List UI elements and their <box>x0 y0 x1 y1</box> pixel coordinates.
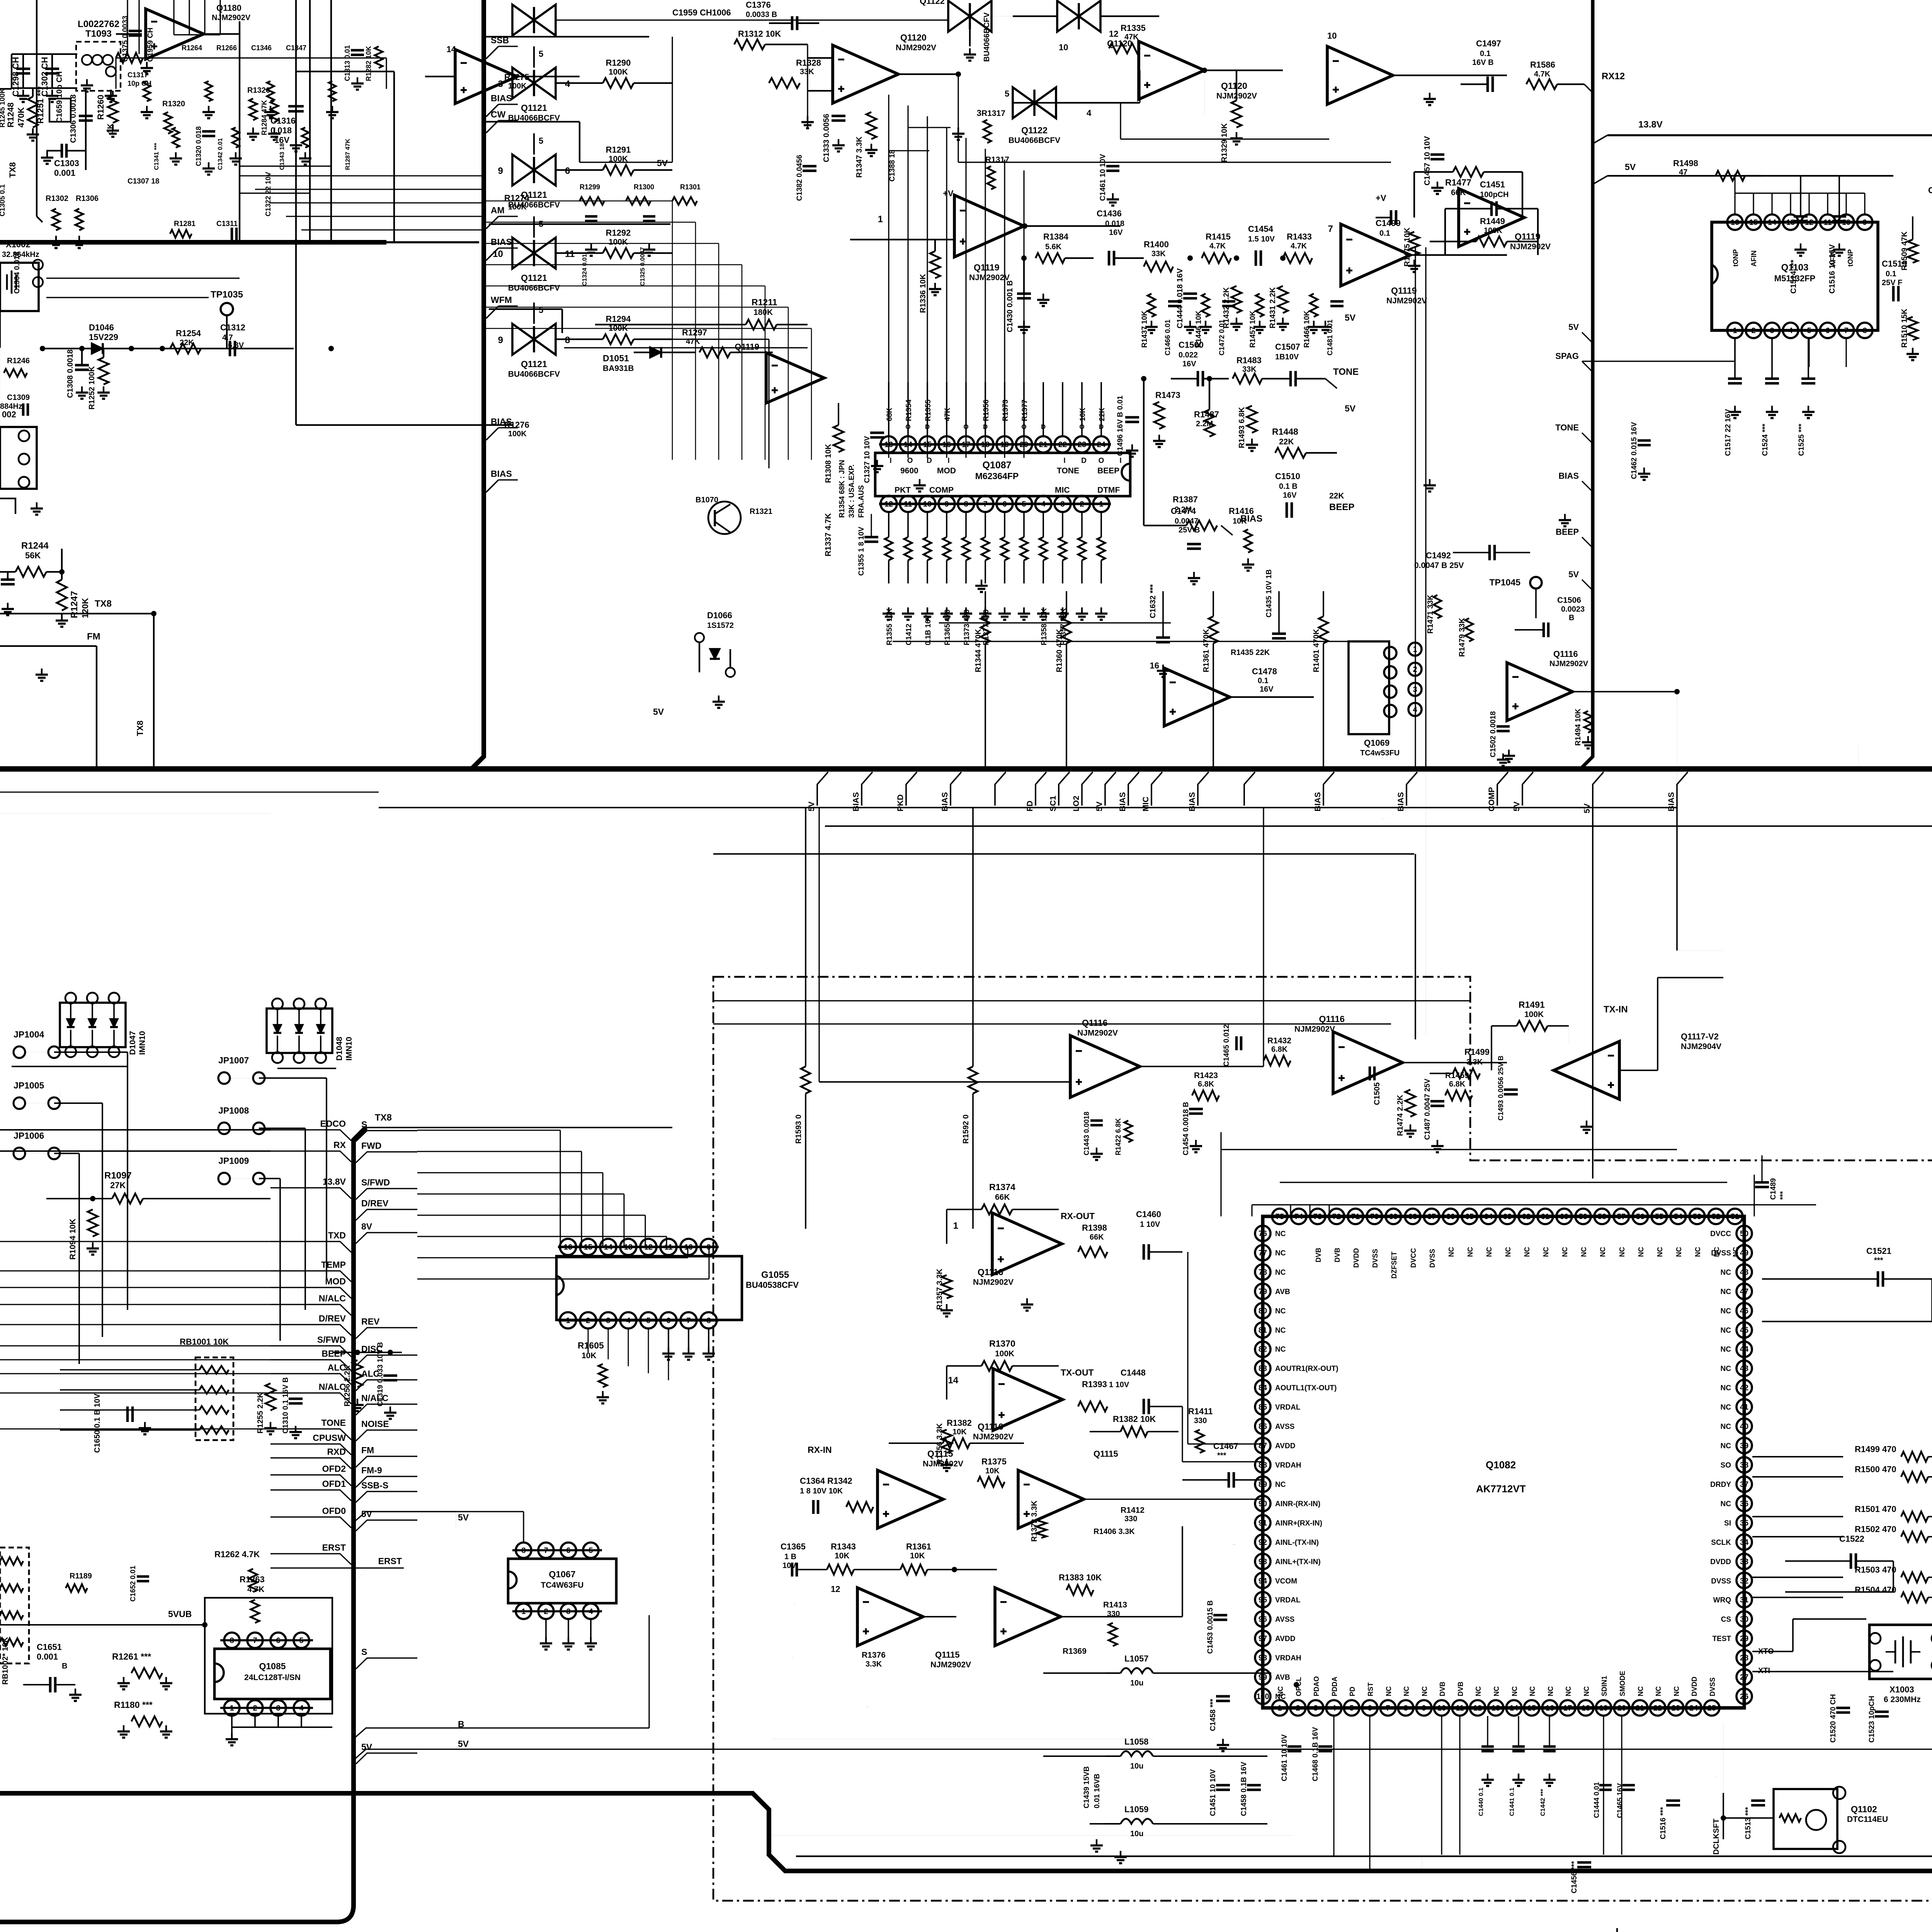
svg-text:SMODE: SMODE <box>1619 1671 1626 1696</box>
svg-text:M51132FP: M51132FP <box>1774 274 1815 283</box>
svg-text:NJM2904V: NJM2904V <box>1681 1042 1721 1051</box>
svg-text:R1431 2.2K: R1431 2.2K <box>1269 287 1277 328</box>
svg-text:R1400: R1400 <box>1144 240 1169 249</box>
svg-text:NC: NC <box>1721 1384 1731 1392</box>
svg-text:R1457 10K: R1457 10K <box>1249 311 1257 348</box>
svg-text:RX12: RX12 <box>1602 71 1625 82</box>
svg-text:54: 54 <box>1674 1213 1683 1221</box>
svg-text:XTI: XTI <box>1758 1667 1770 1675</box>
svg-text:6: 6 <box>565 166 570 176</box>
svg-text:NJM2902V: NJM2902V <box>930 1660 971 1669</box>
svg-text:NC: NC <box>1637 1247 1645 1257</box>
svg-text:C1439 15VB: C1439 15VB <box>1083 1766 1091 1808</box>
svg-text:C1505: C1505 <box>1376 1043 1377 1044</box>
svg-text:NC: NC <box>1721 1403 1731 1412</box>
svg-text:82: 82 <box>1259 1345 1267 1354</box>
svg-text:16: 16 <box>1731 218 1739 227</box>
svg-text:C1456 ***: C1456 *** <box>1570 1861 1578 1893</box>
svg-text:Q1119: Q1119 <box>1515 231 1541 241</box>
svg-text:100K: 100K <box>508 430 527 438</box>
svg-text:0.022: 0.022 <box>1179 351 1198 359</box>
svg-text:R1406 3.3K: R1406 3.3K <box>1094 1527 1135 1536</box>
svg-text:4: 4 <box>299 1704 304 1713</box>
svg-text:C1443 0.0018: C1443 0.0018 <box>1083 1112 1090 1155</box>
svg-text:16V: 16V <box>1109 228 1123 237</box>
svg-text:R1284 47K: R1284 47K <box>260 100 268 135</box>
svg-text:22K: 22K <box>1098 408 1106 421</box>
svg-text:C1365: C1365 <box>781 1542 806 1551</box>
svg-text:470K: 470K <box>16 107 26 128</box>
svg-text:16: 16 <box>1546 1704 1554 1713</box>
svg-text:R1281: R1281 <box>174 220 196 228</box>
svg-text:36: 36 <box>1740 1500 1748 1508</box>
svg-text:2: 2 <box>586 1316 590 1325</box>
svg-text:NC: NC <box>1580 1247 1588 1257</box>
svg-text:NJM2902V: NJM2902V <box>1549 660 1588 668</box>
svg-text:47K: 47K <box>686 337 700 346</box>
svg-text:R1355: R1355 <box>924 400 932 421</box>
svg-text:C1388 18: C1388 18 <box>888 150 896 182</box>
svg-text:FM-9: FM-9 <box>361 1465 382 1475</box>
svg-text:12: 12 <box>1109 29 1118 39</box>
svg-text:73: 73 <box>1313 1213 1322 1221</box>
svg-text:R1344 470K: R1344 470K <box>974 629 983 672</box>
svg-text:C1346: C1346 <box>251 44 272 52</box>
svg-text:C1659 10p CH: C1659 10p CH <box>55 71 64 123</box>
svg-text:AINR-(RX-IN): AINR-(RX-IN) <box>1275 1500 1320 1508</box>
svg-text:R1586: R1586 <box>1530 60 1555 70</box>
svg-text:R1312 10K: R1312 10K <box>738 29 781 39</box>
svg-text:12: 12 <box>831 1584 840 1594</box>
svg-text:JP1005: JP1005 <box>14 1080 44 1090</box>
svg-text:TX8: TX8 <box>135 721 145 736</box>
svg-text:BIAS: BIAS <box>1558 471 1579 481</box>
svg-text:10: 10 <box>923 500 932 509</box>
svg-text:MIC: MIC <box>1141 797 1150 812</box>
svg-text:DVSS: DVSS <box>1709 1677 1716 1696</box>
svg-text:3.3K: 3.3K <box>1466 1058 1483 1066</box>
svg-text:16V: 16V <box>1283 491 1297 500</box>
svg-text:1.5 10V: 1.5 10V <box>1248 235 1275 243</box>
svg-text:Q1117-V2: Q1117-V2 <box>1681 1032 1719 1041</box>
svg-text:NC: NC <box>1385 1686 1393 1696</box>
svg-text:6: 6 <box>1367 1704 1372 1713</box>
svg-text:65: 65 <box>1465 1213 1474 1221</box>
svg-text:I: I <box>946 423 948 430</box>
svg-text:5V: 5V <box>1345 403 1356 413</box>
svg-text:C1306 0.0018: C1306 0.0018 <box>69 94 78 143</box>
svg-text:5V: 5V <box>458 1739 469 1749</box>
svg-text:3: 3 <box>1413 685 1417 694</box>
svg-text:2: 2 <box>1296 1704 1300 1713</box>
svg-text:98: 98 <box>1259 1654 1267 1662</box>
svg-text:30: 30 <box>1740 1615 1748 1624</box>
svg-text:C1310 0.1 16V B: C1310 0.1 16V B <box>282 1377 290 1434</box>
svg-text:R1313: R1313 <box>769 150 770 151</box>
svg-text:14: 14 <box>1768 218 1777 227</box>
svg-text:BIAS: BIAS <box>1188 792 1197 811</box>
svg-text:7: 7 <box>1844 327 1848 335</box>
svg-text:R1252 100K: R1252 100K <box>88 366 96 410</box>
svg-text:8: 8 <box>964 500 968 509</box>
svg-text:C1308 0.0018: C1308 0.0018 <box>66 349 75 398</box>
svg-text:AFIN: AFIN <box>1750 250 1758 267</box>
svg-text:25V B: 25V B <box>1179 526 1200 534</box>
svg-text:5: 5 <box>588 1546 593 1555</box>
svg-text:***: *** <box>1874 1256 1883 1265</box>
svg-text:***: *** <box>1217 1451 1226 1460</box>
svg-text:NC: NC <box>1275 1230 1286 1238</box>
svg-text:72: 72 <box>1332 1213 1341 1221</box>
svg-text:BIAS: BIAS <box>852 792 861 811</box>
svg-text:R1263: R1263 <box>240 1575 265 1584</box>
svg-text:NC: NC <box>1277 1686 1284 1696</box>
svg-text:DVB: DVB <box>1457 1682 1464 1696</box>
svg-text:NC: NC <box>1721 1365 1731 1373</box>
svg-text:90: 90 <box>1259 1500 1267 1508</box>
svg-text:BIAS: BIAS <box>1667 792 1676 811</box>
svg-text:64: 64 <box>1484 1213 1493 1221</box>
svg-text:15: 15 <box>1527 1704 1536 1713</box>
svg-text:TX8: TX8 <box>375 1112 392 1123</box>
svg-text:C1487 0.0047 25V: C1487 0.0047 25V <box>1423 1078 1432 1140</box>
svg-text:NC: NC <box>1721 1500 1731 1508</box>
svg-text:OFD0: OFD0 <box>322 1506 346 1516</box>
svg-text:14: 14 <box>447 44 456 54</box>
svg-text:71: 71 <box>1351 1213 1360 1221</box>
svg-text:4.7K: 4.7K <box>1534 70 1551 78</box>
svg-text:D: D <box>927 457 932 465</box>
svg-text:D/REV: D/REV <box>361 1198 389 1208</box>
svg-text:C1375 0.0033: C1375 0.0033 <box>121 16 129 62</box>
svg-text:68: 68 <box>1408 1213 1417 1221</box>
svg-text:R1382: R1382 <box>947 1418 972 1428</box>
svg-text:NC: NC <box>1275 1249 1286 1257</box>
svg-text:8V: 8V <box>361 1221 372 1231</box>
svg-text:35: 35 <box>1740 1519 1748 1527</box>
svg-text:5V: 5V <box>458 1512 469 1522</box>
svg-text:R1510 15K: R1510 15K <box>1900 308 1909 348</box>
svg-text:BU4066BCFV: BU4066BCFV <box>508 114 560 122</box>
svg-text:12: 12 <box>1805 218 1813 227</box>
svg-text:+V: +V <box>1376 193 1386 203</box>
svg-text:66K: 66K <box>995 1193 1010 1202</box>
svg-text:C1376: C1376 <box>746 0 771 10</box>
svg-text:C1382 0.0456: C1382 0.0456 <box>796 155 804 201</box>
svg-text:8: 8 <box>1403 1704 1408 1713</box>
svg-text:AOUTR1(RX-OUT): AOUTR1(RX-OUT) <box>1275 1365 1338 1373</box>
svg-text:DVB: DVB <box>1315 1248 1322 1262</box>
svg-text:9: 9 <box>706 1243 711 1252</box>
svg-text:80: 80 <box>1259 1307 1267 1315</box>
svg-text:68K: 68K <box>886 408 894 421</box>
svg-text:5VUB: 5VUB <box>168 1609 192 1619</box>
svg-text:R1255 2.2K: R1255 2.2K <box>256 1392 265 1434</box>
svg-text:C1507: C1507 <box>1275 342 1300 352</box>
svg-text:TC4W63FU: TC4W63FU <box>541 1581 584 1590</box>
svg-text:3: 3 <box>1313 1704 1318 1713</box>
svg-text:DVDD: DVDD <box>1352 1248 1360 1268</box>
svg-text:R1446 10K: R1446 10K <box>1195 311 1203 348</box>
svg-text:BEEP: BEEP <box>1329 502 1354 512</box>
svg-text:B1070: B1070 <box>696 496 718 504</box>
svg-text:2: 2 <box>1751 327 1755 335</box>
svg-text:R1373: R1373 <box>1002 400 1010 421</box>
svg-text:C1525 ***: C1525 *** <box>1798 423 1806 456</box>
svg-text:EDCO: EDCO <box>320 1119 346 1129</box>
svg-text:NC: NC <box>1447 1247 1455 1257</box>
svg-text:95: 95 <box>1259 1596 1267 1604</box>
svg-text:C1303: C1303 <box>54 158 79 168</box>
svg-text:AVB: AVB <box>1275 1288 1290 1296</box>
svg-text:TP1045: TP1045 <box>1489 577 1520 587</box>
svg-text:78: 78 <box>1259 1268 1267 1277</box>
svg-text:O: O <box>1021 423 1026 430</box>
svg-text:0.0033 B: 0.0033 B <box>746 10 777 19</box>
svg-text:8: 8 <box>706 1316 711 1325</box>
svg-text:10K: 10K <box>835 1551 850 1560</box>
svg-text:1: 1 <box>953 1221 958 1231</box>
svg-text:O: O <box>905 423 910 430</box>
svg-text:R1260: R1260 <box>96 95 105 120</box>
svg-text:R1466 10K: R1466 10K <box>1303 311 1311 348</box>
svg-text:84: 84 <box>1259 1384 1267 1392</box>
svg-text:I: I <box>888 423 890 430</box>
svg-text:C1513 ***: C1513 *** <box>1744 1807 1752 1839</box>
svg-text:Q1121: Q1121 <box>521 103 547 113</box>
svg-text:C1458 0.1B 16V: C1458 0.1B 16V <box>1240 1762 1248 1816</box>
svg-text:2: 2 <box>1080 500 1084 509</box>
svg-text:R1361: R1361 <box>906 1542 931 1551</box>
svg-text:5V: 5V <box>653 707 664 717</box>
svg-text:C1461 10 10V: C1461 10 10V <box>1099 154 1107 201</box>
svg-text:C1309: C1309 <box>7 393 30 402</box>
svg-text:5: 5 <box>1005 89 1009 99</box>
svg-text:92: 92 <box>1259 1538 1267 1547</box>
svg-text:R1291: R1291 <box>606 145 631 155</box>
svg-text:C1651: C1651 <box>37 1642 62 1652</box>
svg-text:R1491: R1491 <box>1519 1000 1545 1010</box>
svg-text:NC: NC <box>1275 1327 1286 1335</box>
svg-text:tONP: tONP <box>1732 249 1740 267</box>
svg-text:JP1009: JP1009 <box>218 1156 249 1166</box>
svg-text:Q1082: Q1082 <box>1486 1459 1516 1471</box>
svg-text:C1327 10 10V: C1327 10 10V <box>863 436 871 483</box>
svg-text:NJM2902V: NJM2902V <box>1386 296 1427 305</box>
svg-text:5V: 5V <box>361 1742 372 1752</box>
svg-text:NC: NC <box>1511 1686 1519 1696</box>
svg-text:C1513 ***: C1513 *** <box>1715 1776 1716 1777</box>
svg-text:5V: 5V <box>1583 803 1592 813</box>
svg-text:DRDY: DRDY <box>1710 1481 1731 1489</box>
svg-text:R1246: R1246 <box>7 357 30 365</box>
svg-text:NC: NC <box>1721 1307 1731 1315</box>
svg-text:Q1116: Q1116 <box>978 1267 1003 1277</box>
svg-text:3.3K: 3.3K <box>866 1660 882 1668</box>
svg-text:NC: NC <box>1599 1247 1607 1257</box>
svg-text:1: 1 <box>878 214 883 224</box>
svg-text:C1442 ***: C1442 *** <box>1540 1789 1546 1816</box>
svg-text:Q1121: Q1121 <box>521 190 547 200</box>
svg-text:19: 19 <box>1599 1704 1608 1713</box>
svg-text:9600: 9600 <box>900 466 918 475</box>
svg-text:12: 12 <box>884 500 893 509</box>
svg-text:Q1115: Q1115 <box>935 1650 960 1660</box>
svg-text:2: 2 <box>544 1607 548 1616</box>
svg-text:R1423: R1423 <box>1194 1071 1218 1080</box>
svg-text:55: 55 <box>1655 1213 1663 1221</box>
svg-text:PDDA: PDDA <box>1331 1677 1338 1696</box>
svg-text:C1430 0.001 B: C1430 0.001 B <box>1006 280 1014 332</box>
svg-text:C1474: C1474 <box>1171 506 1196 516</box>
svg-text:Q1087: Q1087 <box>982 460 1011 471</box>
svg-text:R1321: R1321 <box>750 507 772 516</box>
svg-text:DVDD: DVDD <box>1690 1677 1698 1696</box>
svg-text:O: O <box>1079 423 1084 430</box>
svg-text:D1048: D1048 <box>335 1037 344 1061</box>
svg-text:NC: NC <box>1421 1686 1429 1696</box>
svg-text:FRA.AUS: FRA.AUS <box>857 485 866 518</box>
svg-text:M62364FP: M62364FP <box>975 471 1019 481</box>
svg-text:0.1: 0.1 <box>1886 270 1896 278</box>
svg-text:R1499 470: R1499 470 <box>1855 1444 1896 1454</box>
svg-text:2: 2 <box>1413 665 1417 674</box>
svg-text:R1387: R1387 <box>1173 495 1198 504</box>
svg-text:NC: NC <box>1583 1686 1590 1696</box>
svg-text:WFM: WFM <box>491 295 512 305</box>
svg-text:15: 15 <box>1749 218 1758 227</box>
svg-text:R1503 470: R1503 470 <box>1855 1565 1896 1575</box>
svg-text:C1307 18: C1307 18 <box>128 177 159 185</box>
svg-text:R1356: R1356 <box>982 400 990 421</box>
svg-text:O: O <box>1099 457 1104 465</box>
svg-text:D1047: D1047 <box>128 1031 137 1055</box>
svg-text:R1415: R1415 <box>1206 232 1231 241</box>
svg-text:R1493 6.8K: R1493 6.8K <box>1238 407 1246 448</box>
svg-text:NJM2902V: NJM2902V <box>212 14 251 22</box>
svg-text:NC: NC <box>1275 1481 1286 1489</box>
svg-text:10: 10 <box>1842 218 1850 227</box>
svg-text:R1375: R1375 <box>981 1457 1007 1466</box>
svg-text:D1051: D1051 <box>603 353 629 363</box>
svg-text:R1448: R1448 <box>1272 427 1298 437</box>
svg-text:R1592 0: R1592 0 <box>962 1114 970 1144</box>
svg-text:R1244: R1244 <box>21 541 49 551</box>
svg-text:R1357 3.3K: R1357 3.3K <box>935 1269 944 1310</box>
svg-text:C1355 1 8 10V: C1355 1 8 10V <box>857 527 866 576</box>
svg-text:58: 58 <box>1598 1213 1606 1221</box>
svg-text:R1306: R1306 <box>76 194 99 203</box>
svg-text:R1245 100K: R1245 100K <box>0 88 6 128</box>
svg-text:180K: 180K <box>753 308 773 317</box>
svg-text:C1478: C1478 <box>1252 667 1277 676</box>
svg-text:6: 6 <box>1002 500 1007 509</box>
svg-text:96: 96 <box>1259 1615 1267 1624</box>
svg-text:93: 93 <box>1259 1558 1267 1566</box>
svg-text:R1290: R1290 <box>606 58 631 68</box>
svg-text:R1287 47K: R1287 47K <box>345 139 351 170</box>
svg-text:83: 83 <box>1259 1364 1267 1373</box>
svg-text:57: 57 <box>1617 1213 1626 1221</box>
svg-text:32: 32 <box>1740 1577 1748 1585</box>
svg-text:1: 1 <box>1277 1704 1282 1713</box>
svg-text:C1466 0.01: C1466 0.01 <box>1164 320 1172 355</box>
svg-text:TONE: TONE <box>321 1418 346 1428</box>
svg-text:C1652 0.01: C1652 0.01 <box>129 1566 137 1602</box>
svg-text:CPUSW: CPUSW <box>313 1433 346 1443</box>
svg-text:21: 21 <box>1039 440 1048 449</box>
svg-text:10V: 10V <box>782 1561 796 1570</box>
svg-text:B: B <box>62 1662 67 1670</box>
svg-text:R1376: R1376 <box>862 1651 886 1660</box>
svg-text:tONP: tONP <box>1847 249 1854 267</box>
svg-text:11: 11 <box>565 249 575 259</box>
svg-text:69: 69 <box>1389 1213 1398 1221</box>
svg-text:C1959 CH1006: C1959 CH1006 <box>672 8 731 17</box>
svg-text:C1650 0.1 B 10V: C1650 0.1 B 10V <box>93 1393 102 1453</box>
svg-text:I: I <box>1063 457 1065 465</box>
svg-text:I: I <box>1004 423 1006 430</box>
svg-text:3: 3 <box>1770 327 1774 335</box>
svg-text:29: 29 <box>1740 1634 1748 1643</box>
svg-text:3: 3 <box>606 1316 610 1325</box>
svg-text:C1341 ***: C1341 *** <box>153 143 160 170</box>
svg-text:R1377: R1377 <box>1021 400 1029 421</box>
svg-text:SO: SO <box>1721 1461 1731 1469</box>
svg-text:Q1115: Q1115 <box>792 1657 793 1658</box>
svg-text:R1479 33K: R1479 33K <box>1458 617 1466 657</box>
svg-text:DVCC: DVCC <box>1410 1248 1417 1268</box>
svg-text:C1959 CH: C1959 CH <box>146 27 155 62</box>
svg-text:NOISE: NOISE <box>361 1419 389 1429</box>
svg-text:100K: 100K <box>1524 1010 1544 1019</box>
svg-text:0.0047 B 25V: 0.0047 B 25V <box>1414 561 1464 570</box>
svg-text:24: 24 <box>1097 440 1106 449</box>
svg-text:8: 8 <box>565 335 570 345</box>
svg-text:DVSS: DVSS <box>1711 1249 1731 1257</box>
svg-text:C1460: C1460 <box>1136 1209 1161 1219</box>
svg-text:BIAS: BIAS <box>1118 792 1127 811</box>
svg-text:I: I <box>889 457 891 465</box>
svg-text:1: 1 <box>1099 500 1103 509</box>
svg-text:BU4066BCFV: BU4066BCFV <box>983 12 991 62</box>
svg-text:BEEP: BEEP <box>321 1349 346 1359</box>
svg-text:1K: 1K <box>106 123 115 133</box>
svg-text:38: 38 <box>1740 1461 1748 1469</box>
svg-text:10: 10 <box>493 249 503 259</box>
svg-text:NC: NC <box>1275 1345 1286 1354</box>
svg-text:R1343: R1343 <box>831 1542 856 1551</box>
svg-text:BIAS: BIAS <box>1313 792 1322 811</box>
svg-text:DVSS: DVSS <box>1429 1249 1436 1268</box>
svg-text:R1422 6.8K: R1422 6.8K <box>1114 1118 1122 1155</box>
svg-text:10: 10 <box>1327 31 1337 41</box>
svg-text:47: 47 <box>1740 1287 1748 1296</box>
svg-text:R1354 68K : JPN: R1354 68K : JPN <box>838 460 846 518</box>
svg-text:R1292: R1292 <box>606 228 631 238</box>
svg-text:ERST: ERST <box>322 1543 346 1553</box>
svg-text:43: 43 <box>1740 1364 1748 1373</box>
svg-text:DTC114EU: DTC114EU <box>1847 1815 1888 1824</box>
svg-text:BU4066BCFV: BU4066BCFV <box>508 201 560 209</box>
svg-text:R1372: R1372 <box>794 1603 795 1604</box>
svg-text:L0022762: L0022762 <box>78 19 119 29</box>
svg-text:G1055: G1055 <box>761 1270 789 1280</box>
svg-text:81: 81 <box>1259 1326 1267 1335</box>
svg-text:D: D <box>1041 423 1046 430</box>
svg-text:10K: 10K <box>1079 408 1087 421</box>
svg-text:Q1120: Q1120 <box>1107 39 1132 48</box>
